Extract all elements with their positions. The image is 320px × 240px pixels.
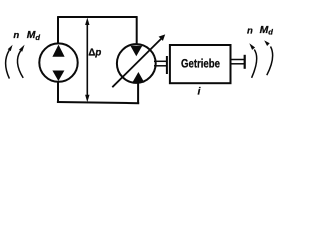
svg-text:i: i [198, 86, 202, 98]
pump P1 upper flow triangle [52, 45, 64, 57]
motor M1 circle [117, 44, 156, 83]
svg-text:Getriebe: Getriebe [181, 57, 220, 70]
output flange bar [244, 55, 246, 69]
pump P1 circle [39, 43, 77, 81]
rotation arrow Md left [17, 51, 23, 78]
motor M1 variable displacement arrow [112, 38, 162, 88]
svg-text:Δp: Δp [88, 47, 101, 58]
motor M1 upper flow triangle [130, 46, 142, 57]
rotation arrow n right [252, 50, 257, 78]
coupling bar at gearbox input [166, 56, 168, 74]
shaft gearbox output (double line) [231, 59, 244, 61]
pump P1 lower flow triangle [52, 71, 64, 82]
rotation arrow n left [6, 50, 10, 78]
gearbox U1 box [170, 45, 231, 83]
motor M1 lower flow triangle [132, 72, 144, 83]
shaft motor to gearbox (double line) [154, 60, 168, 62]
svg-text:n: n [247, 25, 253, 36]
wire top pressure line [58, 16, 138, 18]
wire right branch through motor [136, 16, 138, 50]
wire left branch through pump [57, 16, 59, 102]
node delta-p measurement arrow [86, 21, 88, 99]
svg-text:Md: Md [260, 25, 274, 37]
svg-text:n: n [13, 30, 19, 41]
rotation arrow Md right [267, 47, 273, 76]
svg-text:Md: Md [27, 30, 41, 42]
wire bottom pressure line [57, 102, 139, 103]
